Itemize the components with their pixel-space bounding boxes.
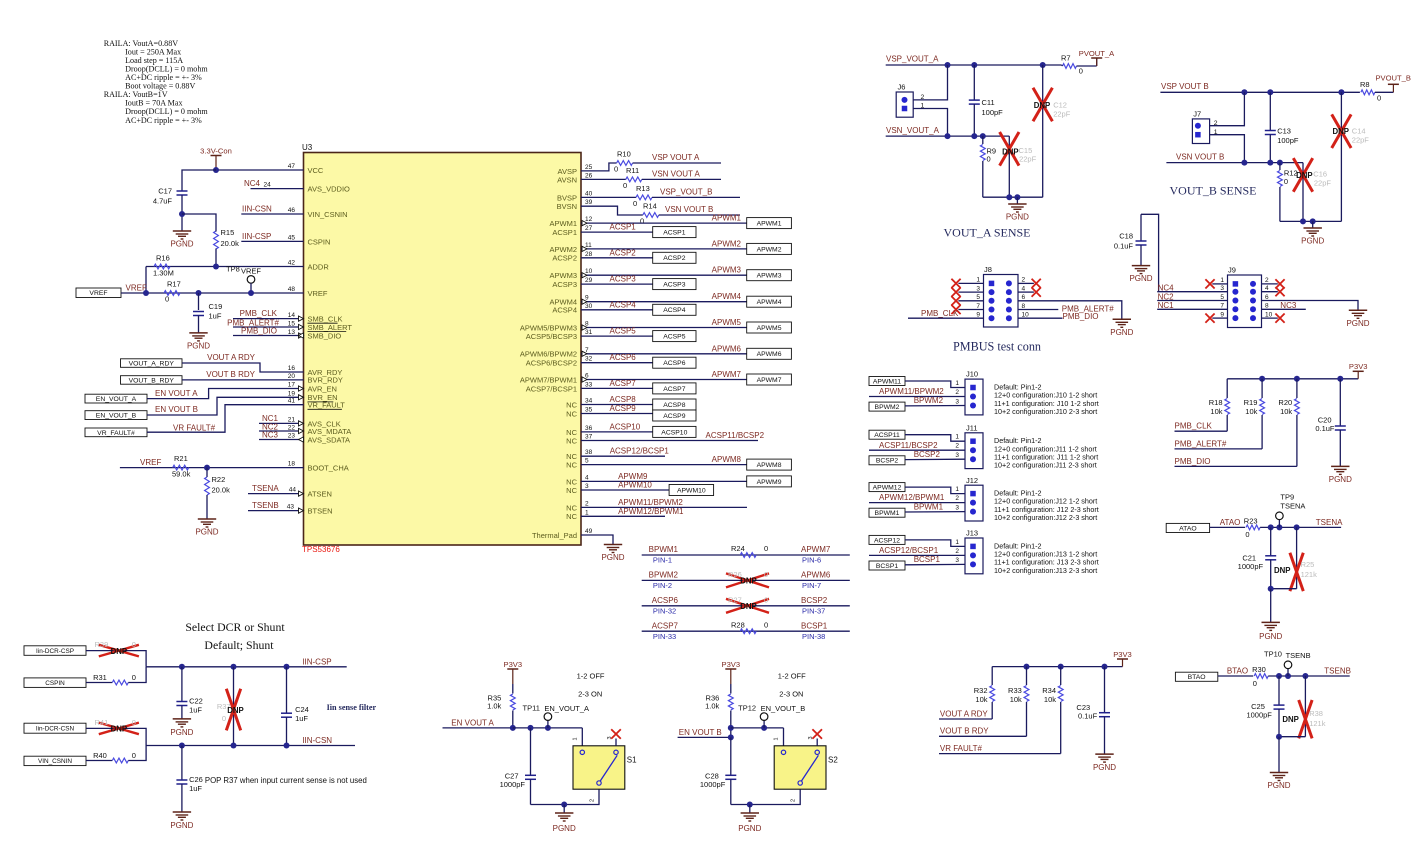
svg-text:2: 2	[955, 548, 959, 555]
svg-text:VSP VOUT B: VSP VOUT B	[1161, 82, 1209, 91]
node ACSP8 flag	[653, 399, 696, 410]
svg-text:NC1: NC1	[1158, 301, 1175, 310]
svg-text:APWM10: APWM10	[618, 481, 652, 490]
svg-text:2-3 ON: 2-3 ON	[779, 690, 803, 699]
wire ACSP9 pin35	[581, 404, 653, 414]
wire ACSP10 pin36	[581, 422, 653, 432]
resistor R14	[640, 202, 740, 226]
connector J6	[896, 83, 924, 118]
svg-text:VSN VOUT B: VSN VOUT B	[1176, 152, 1224, 161]
resistor R22	[205, 468, 230, 519]
svg-text:PGND: PGND	[1346, 319, 1369, 328]
capacitor C22	[176, 667, 202, 719]
junction rail/R34	[1058, 664, 1064, 670]
svg-text:49: 49	[585, 528, 593, 535]
svg-text:PMBUS test conn: PMBUS test conn	[953, 340, 1041, 354]
svg-text:VIN_CSNIN: VIN_CSNIN	[308, 210, 348, 219]
note J10 configuration	[994, 382, 1099, 416]
svg-text:R14: R14	[643, 202, 657, 211]
svg-text:R32: R32	[974, 686, 988, 695]
svg-text:PIN-38: PIN-38	[802, 632, 825, 641]
svg-text:0: 0	[640, 217, 644, 226]
junction C17/R15	[179, 211, 185, 217]
svg-text:AVS_VDDIO: AVS_VDDIO	[308, 185, 351, 194]
svg-text:9: 9	[976, 312, 980, 319]
svg-text:47: 47	[288, 163, 296, 170]
svg-text:VOUT_A SENSE: VOUT_A SENSE	[943, 226, 1030, 240]
power P3V3 PMB	[1349, 362, 1368, 379]
svg-text:25: 25	[585, 164, 593, 171]
junction VCC/C17	[213, 167, 219, 173]
node BPWM1 flag	[869, 508, 905, 517]
svg-text:TP8: TP8	[226, 265, 240, 274]
svg-text:PMB_CLK: PMB_CLK	[921, 309, 959, 318]
node APWM4 flag	[747, 296, 792, 307]
svg-text:ACSP2: ACSP2	[552, 254, 577, 263]
svg-text:C14: C14	[1352, 127, 1366, 136]
ground PGND J8	[1110, 319, 1133, 337]
junction rail/R33	[1024, 664, 1030, 670]
node APWM5 flag	[747, 322, 792, 333]
wire C17 bottom	[181, 195, 183, 231]
svg-text:R15: R15	[221, 228, 235, 237]
wire APWM3 pin10	[581, 266, 747, 278]
wire EN net S1	[443, 719, 513, 728]
connector J12 body	[965, 476, 983, 521]
svg-text:7: 7	[976, 303, 980, 310]
connector J9 body	[1228, 266, 1262, 328]
svg-text:APWM4: APWM4	[712, 292, 742, 301]
capacitor C14 DNP	[1332, 92, 1370, 221]
svg-text:APWM11: APWM11	[873, 378, 901, 385]
svg-text:26: 26	[585, 172, 593, 179]
svg-text:R7: R7	[1061, 54, 1071, 63]
capacitor C13	[1265, 92, 1299, 162]
svg-text:PGND: PGND	[601, 553, 624, 562]
svg-text:APWM2: APWM2	[712, 239, 742, 248]
svg-text:PGND: PGND	[1259, 632, 1282, 641]
wire C17 top	[182, 170, 216, 191]
junction CSN/C24	[284, 743, 290, 749]
wire VREF net	[121, 284, 304, 294]
svg-text:45: 45	[288, 234, 296, 241]
svg-text:R17: R17	[167, 280, 181, 289]
svg-text:22pF: 22pF	[1314, 179, 1332, 188]
svg-text:APWM1: APWM1	[549, 219, 577, 228]
node APWM3 flag	[747, 270, 792, 281]
wire PMB_DIO pin13	[233, 326, 304, 338]
junction PGND S1	[561, 802, 567, 808]
junction C15 bottom	[1006, 194, 1012, 200]
connector J7	[1192, 109, 1217, 143]
svg-text:ACSP7: ACSP7	[610, 379, 637, 388]
ground PGND C25	[1267, 773, 1290, 791]
svg-text:35: 35	[585, 407, 593, 414]
svg-text:R10: R10	[617, 150, 631, 159]
node ACSP7 flag	[653, 383, 696, 394]
switch S2	[774, 746, 838, 789]
svg-text:NC4: NC4	[244, 179, 261, 188]
node APWM9 flag	[747, 476, 792, 487]
svg-text:PGND: PGND	[170, 821, 193, 830]
wire J8 pin1 stub	[951, 277, 994, 288]
ground PGND C19	[187, 333, 210, 351]
wire S2 pin2	[731, 789, 800, 804]
svg-text:ACSP10: ACSP10	[661, 429, 687, 436]
wire VR FAULT# net	[939, 744, 1061, 754]
power P3V3 S2	[722, 660, 741, 684]
svg-text:IIN-CSP: IIN-CSP	[242, 232, 271, 241]
svg-text:PIN-7: PIN-7	[802, 581, 821, 590]
svg-text:Iin-DCR-CSP: Iin-DCR-CSP	[36, 648, 74, 655]
resistor R8	[1360, 80, 1393, 103]
svg-text:VREF: VREF	[89, 290, 107, 297]
wire J9 pin4 stub	[1250, 285, 1285, 296]
svg-text:0.1uF: 0.1uF	[1078, 712, 1098, 721]
ground PGND J9	[1346, 310, 1369, 328]
svg-text:8: 8	[1265, 303, 1269, 310]
wire BVSN pin39 to R14	[581, 199, 643, 215]
resistor R38 DNP	[1282, 676, 1325, 738]
resistor R17	[164, 280, 181, 304]
svg-text:TSENB: TSENB	[1324, 667, 1351, 676]
svg-text:PGND: PGND	[170, 728, 193, 737]
wire IIN-CSP rail	[146, 657, 347, 667]
wire APWM6 pin7	[581, 344, 747, 356]
wire VSN_VOUT_B rail	[1166, 152, 1303, 162]
wire J8 pin10 PMB_DIO	[1006, 312, 1099, 322]
svg-text:10k: 10k	[1044, 695, 1056, 704]
svg-text:ACSP12/BCSP1: ACSP12/BCSP1	[610, 447, 670, 456]
wire J11 pin3	[905, 450, 965, 460]
resistor R18	[1209, 379, 1230, 431]
svg-text:121k: 121k	[1309, 719, 1326, 728]
node APWM8 flag	[747, 459, 792, 470]
svg-text:0: 0	[132, 673, 136, 682]
capacitor C16 DNP	[1293, 158, 1331, 221]
svg-text:ATAO: ATAO	[1179, 525, 1197, 532]
svg-text:NC: NC	[566, 409, 577, 418]
svg-text:PIN-6: PIN-6	[802, 556, 821, 565]
svg-text:ACSP4: ACSP4	[552, 306, 577, 315]
junction CSP/C24	[284, 664, 290, 670]
svg-text:4: 4	[1265, 285, 1269, 292]
svg-text:6: 6	[1022, 294, 1026, 301]
svg-text:VSP_VOUT_B: VSP_VOUT_B	[660, 187, 712, 196]
svg-text:0: 0	[165, 295, 169, 304]
svg-text:SMB_DIO: SMB_DIO	[308, 331, 342, 340]
wire J8 pin7 stub	[951, 303, 994, 314]
svg-text:22pF: 22pF	[1352, 136, 1370, 145]
svg-text:ACSP3: ACSP3	[610, 275, 637, 284]
wire ACSP3 pin29	[581, 275, 653, 285]
svg-text:2: 2	[1022, 277, 1026, 284]
svg-text:VR_FAULT: VR_FAULT	[308, 401, 346, 410]
svg-text:DNP: DNP	[111, 647, 127, 656]
svg-text:ACSP12/BCSP1: ACSP12/BCSP1	[879, 546, 939, 555]
svg-text:ACSP5/BCSP3: ACSP5/BCSP3	[526, 332, 577, 341]
junction R17/C19	[196, 290, 202, 296]
svg-text:3: 3	[955, 452, 959, 459]
resistor R28	[642, 620, 850, 640]
svg-text:PMB_CLK: PMB_CLK	[1175, 422, 1213, 431]
wire S1 pin2	[531, 789, 600, 804]
svg-text:ACSP6: ACSP6	[663, 360, 686, 367]
U3 left pin names	[308, 166, 353, 516]
svg-text:BPWM1: BPWM1	[649, 545, 679, 554]
svg-text:VSP VOUT A: VSP VOUT A	[652, 153, 700, 162]
svg-text:VOUT_B SENSE: VOUT_B SENSE	[1169, 184, 1256, 198]
resistor R25 DNP	[1274, 527, 1317, 591]
svg-text:BCSP1: BCSP1	[876, 563, 899, 570]
svg-text:0: 0	[623, 181, 627, 190]
svg-text:C13: C13	[1277, 126, 1291, 135]
svg-text:EN VOUT A: EN VOUT A	[155, 389, 198, 398]
svg-text:48: 48	[288, 286, 296, 293]
wire VSP_VOUT_A rail	[886, 55, 1062, 66]
svg-text:121k: 121k	[1301, 570, 1318, 579]
svg-text:C24: C24	[295, 705, 309, 714]
svg-text:ACSP11/BCSP2: ACSP11/BCSP2	[879, 441, 938, 450]
svg-text:4.7uF: 4.7uF	[153, 197, 173, 206]
wire Thermal_Pad pin49	[581, 528, 613, 545]
svg-text:PGND: PGND	[1129, 274, 1152, 283]
svg-text:Iin-DCR-CSN: Iin-DCR-CSN	[36, 726, 75, 733]
wire APWM1 pin12	[581, 214, 747, 226]
svg-text:0.1uF: 0.1uF	[1114, 241, 1134, 250]
svg-text:10+2 configuration:J12 2-3 sho: 10+2 configuration:J12 2-3 short	[994, 513, 1097, 522]
power 3.3V-Con	[200, 146, 232, 170]
svg-text:APWM7: APWM7	[801, 545, 831, 554]
svg-text:ACSP6: ACSP6	[610, 353, 637, 362]
svg-text:20: 20	[288, 373, 296, 380]
svg-text:J10: J10	[966, 370, 978, 379]
wire J12 pin2 APWM12/BPWM1	[869, 493, 965, 502]
svg-text:ACSP8: ACSP8	[610, 395, 637, 404]
junction EN jog S2	[728, 734, 734, 740]
wire VSP_VOUT_B rail	[1160, 82, 1360, 93]
svg-text:28: 28	[585, 251, 593, 258]
capacitor C12 DNP	[1033, 65, 1071, 197]
wire J9 pin1 stub	[1205, 277, 1238, 288]
svg-text:3: 3	[955, 398, 959, 405]
svg-text:1-2 OFF: 1-2 OFF	[577, 672, 605, 681]
svg-text:TSENA: TSENA	[1280, 502, 1305, 511]
node APWM1 flag	[747, 218, 792, 229]
wire ACSP6 pin32	[581, 353, 653, 363]
svg-text:J6: J6	[898, 83, 906, 92]
svg-text:J13: J13	[966, 529, 978, 538]
wire J10 pin1	[905, 380, 965, 388]
svg-text:0: 0	[633, 199, 637, 208]
svg-text:R24: R24	[731, 544, 745, 553]
svg-text:CSPIN: CSPIN	[308, 237, 331, 246]
svg-text:R21: R21	[174, 454, 188, 463]
svg-text:0.1uF: 0.1uF	[1315, 424, 1335, 433]
node VOUT_A_RDY flag	[121, 359, 183, 368]
node ACSP3 flag	[653, 279, 696, 290]
wire J6 pin2 to VSP	[913, 65, 947, 100]
svg-text:J9: J9	[1228, 266, 1236, 275]
wire VSN_VOUT_A rail	[886, 126, 1010, 136]
svg-text:1000pF: 1000pF	[500, 780, 526, 789]
svg-text:P3V3: P3V3	[1349, 362, 1368, 371]
wire APWM4 pin9	[581, 292, 747, 304]
svg-text:0: 0	[1377, 93, 1381, 102]
svg-text:IIN-CSN: IIN-CSN	[242, 205, 272, 214]
svg-text:36: 36	[585, 425, 593, 432]
svg-text:4: 4	[585, 474, 589, 481]
junction VSP/J6	[945, 62, 951, 68]
switch S2 pin1 label	[774, 737, 780, 740]
svg-text:PGND: PGND	[1110, 328, 1133, 337]
svg-text:APWM8: APWM8	[757, 462, 782, 469]
wire APWM9 pin4	[581, 472, 747, 482]
svg-text:APWM6/BPWM2: APWM6/BPWM2	[520, 350, 577, 359]
svg-text:EN_VOUT_B: EN_VOUT_B	[96, 413, 137, 420]
svg-text:0: 0	[764, 544, 768, 553]
svg-text:BCSP2: BCSP2	[914, 450, 941, 459]
svg-text:APWM8: APWM8	[712, 455, 742, 464]
wire J9 pin3 NC4	[1157, 284, 1238, 295]
svg-text:PMB_DIO: PMB_DIO	[1175, 457, 1211, 466]
svg-text:0: 0	[132, 718, 136, 727]
svg-text:ACSP5: ACSP5	[610, 327, 637, 336]
ground PGND C23	[1093, 754, 1116, 772]
node ACSP11 flag	[869, 430, 905, 439]
wire J9 pin8 NC3	[1250, 301, 1306, 312]
svg-text:PGND: PGND	[1329, 475, 1352, 484]
svg-text:VSN_VOUT_A: VSN_VOUT_A	[886, 126, 940, 135]
svg-text:1uF: 1uF	[189, 706, 202, 715]
svg-text:40: 40	[585, 190, 593, 197]
connector J10 body	[965, 370, 983, 415]
svg-text:ACSP3: ACSP3	[663, 282, 686, 289]
svg-text:NC3: NC3	[262, 430, 279, 439]
wire J10 pin3	[905, 396, 965, 406]
svg-text:ACSP7: ACSP7	[663, 386, 686, 393]
wire R15 top	[182, 214, 216, 230]
svg-text:22pF: 22pF	[1053, 110, 1071, 119]
svg-text:NC: NC	[566, 512, 577, 521]
svg-text:0: 0	[1079, 67, 1083, 76]
svg-text:3: 3	[585, 483, 589, 490]
svg-text:16: 16	[288, 365, 296, 372]
svg-text:ACSP8: ACSP8	[663, 402, 686, 409]
svg-text:APWM5: APWM5	[757, 325, 782, 332]
svg-text:P3V3: P3V3	[504, 660, 523, 669]
svg-text:EN VOUT B: EN VOUT B	[155, 405, 198, 414]
wire J8 pin9 PMB_CLK	[908, 309, 995, 321]
svg-text:PVOUT_B: PVOUT_B	[1375, 74, 1410, 83]
ground PGND C20	[1329, 466, 1352, 484]
capacitor C19	[193, 302, 222, 321]
junction EN/R S2	[728, 725, 734, 731]
wire C21 bottom rail	[1271, 588, 1297, 590]
capacitor C15 DNP	[1000, 132, 1037, 197]
wire sense A bottom rail	[983, 196, 1043, 198]
node VREF flag	[76, 288, 121, 298]
svg-text:1: 1	[955, 539, 959, 546]
svg-text:1000pF: 1000pF	[700, 780, 726, 789]
svg-text:APWM6: APWM6	[712, 344, 742, 353]
svg-text:BCSP2: BCSP2	[876, 458, 899, 465]
svg-text:BCSP1: BCSP1	[801, 621, 828, 630]
junction PGND stem A	[1014, 194, 1020, 200]
note J11 configuration	[994, 436, 1098, 470]
wire ACSP12/BCSP1 pin38	[581, 447, 669, 457]
svg-text:2: 2	[791, 799, 797, 802]
svg-text:42: 42	[288, 260, 296, 267]
svg-text:ACSP6: ACSP6	[652, 596, 679, 605]
svg-text:1000pF: 1000pF	[1238, 562, 1264, 571]
wire PMB_DIO net	[1175, 457, 1297, 467]
svg-text:CSPIN: CSPIN	[45, 680, 65, 687]
wire PMB_CLK net	[1175, 422, 1228, 432]
ground PGND thermal pad	[601, 545, 624, 563]
svg-text:S2: S2	[828, 755, 838, 764]
svg-text:TSENA: TSENA	[252, 484, 279, 493]
svg-text:APWM1: APWM1	[757, 221, 782, 228]
svg-text:23: 23	[288, 433, 296, 440]
svg-text:TP11: TP11	[523, 704, 540, 713]
svg-text:10: 10	[1265, 311, 1273, 318]
wire ACSP1 pin27	[581, 223, 653, 233]
svg-text:ACSP6/BCSP2: ACSP6/BCSP2	[526, 359, 577, 368]
test point TP10	[1264, 650, 1311, 677]
svg-text:PMB_CLK: PMB_CLK	[240, 309, 278, 318]
svg-text:DNP: DNP	[1296, 171, 1312, 180]
svg-text:46: 46	[288, 207, 296, 214]
junction rail/C23	[1102, 664, 1108, 670]
wire APWM5 pin8	[581, 318, 747, 330]
svg-text:APWM6: APWM6	[757, 351, 782, 358]
resistor R15	[214, 228, 239, 267]
svg-text:TP12: TP12	[738, 704, 756, 713]
svg-text:BCSP2: BCSP2	[801, 596, 828, 605]
wire status pullup rail	[992, 666, 1122, 668]
svg-text:VSP_VOUT_A: VSP_VOUT_A	[886, 55, 939, 64]
power PVOUT_A	[1079, 49, 1115, 66]
svg-text:10k: 10k	[975, 695, 987, 704]
svg-text:34: 34	[585, 398, 593, 405]
resistor R30	[1252, 665, 1268, 688]
wire J11 pin1	[905, 434, 965, 442]
svg-text:P3V3: P3V3	[722, 660, 741, 669]
svg-text:VOUT_B_RDY: VOUT_B_RDY	[129, 377, 175, 384]
svg-text:PGND: PGND	[1093, 763, 1116, 772]
label VOUT_B SENSE	[1169, 184, 1256, 198]
test point TP9	[1276, 493, 1306, 528]
svg-text:R13: R13	[636, 184, 650, 193]
svg-text:BVSP: BVSP	[557, 193, 577, 202]
svg-text:ACSP7: ACSP7	[652, 621, 679, 630]
wire IIN-CSN pin46	[241, 205, 303, 215]
svg-text:BPWM1: BPWM1	[875, 510, 900, 517]
svg-text:C18: C18	[1119, 232, 1133, 241]
svg-text:21: 21	[288, 416, 296, 423]
svg-text:APWM3: APWM3	[757, 273, 782, 280]
junction VREF TP	[248, 290, 254, 296]
node ACSP1 flag	[653, 227, 696, 238]
connector J11 body	[965, 423, 983, 468]
svg-text:3: 3	[976, 285, 980, 292]
svg-text:VOUT A RDY: VOUT A RDY	[940, 709, 989, 718]
svg-text:APWM7: APWM7	[757, 377, 782, 384]
wire S1 pin3 stub	[607, 736, 616, 745]
svg-text:ACSP2: ACSP2	[663, 255, 686, 262]
junction TSENA/C21	[1268, 524, 1274, 530]
